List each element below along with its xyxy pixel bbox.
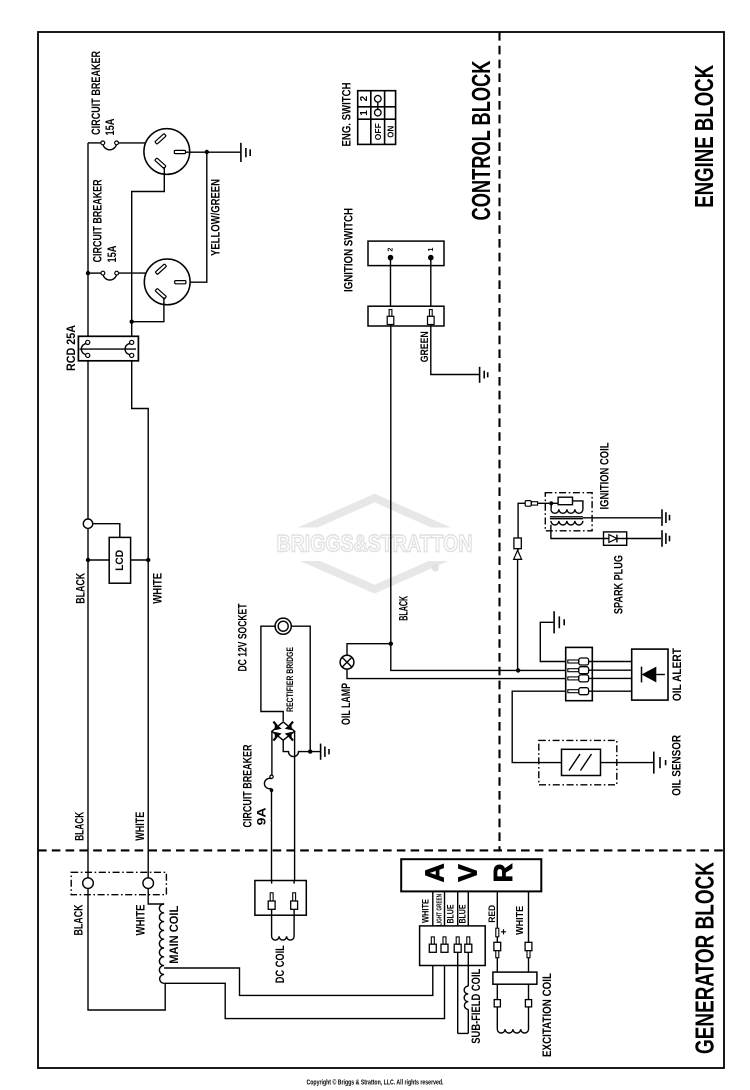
svg-text:GREEN: GREEN bbox=[419, 331, 431, 362]
circuit breaker CB1 15A bbox=[101, 141, 119, 150]
svg-text:2: 2 bbox=[388, 247, 395, 251]
svg-text:OIL SENSOR: OIL SENSOR bbox=[672, 734, 684, 796]
svg-text:Copyright © Briggs & Stratton,: Copyright © Briggs & Stratton, LLC. All … bbox=[307, 1078, 444, 1086]
svg-text:RECTIFIER BRIDGE: RECTIFIER BRIDGE bbox=[285, 647, 296, 712]
ignition coil lower winding bbox=[551, 521, 583, 525]
DC 12V socket J3 bbox=[275, 618, 291, 634]
DC coil pin A bbox=[268, 881, 275, 910]
svg-text:IGNITION SWITCH: IGNITION SWITCH bbox=[342, 208, 356, 292]
dashed divider generator block bbox=[38, 849, 724, 851]
wire socket J2 bottom to white rail bbox=[132, 297, 164, 321]
svg-text:ENG. SWITCH: ENG. SWITCH bbox=[340, 83, 354, 147]
wire main coil bottom to AVR light green bbox=[164, 952, 444, 1018]
ignition coil upper winding bbox=[551, 509, 583, 513]
wire terminal to primary and winding bbox=[551, 503, 558, 509]
spark plug box with diode bbox=[604, 532, 627, 545]
socket J1 (AC outlet) bbox=[144, 129, 190, 175]
wire breaker 9A to DC coil bbox=[271, 792, 273, 881]
junction dot black-LCD bbox=[86, 558, 90, 562]
svg-text:WHITE: WHITE bbox=[421, 899, 432, 923]
wire left rail L down bbox=[87, 143, 89, 336]
excitation block box bbox=[493, 972, 537, 984]
terminal circle black bbox=[83, 878, 94, 889]
terminal circle LCD tap bbox=[83, 519, 92, 528]
terminal dot 2 bbox=[388, 255, 394, 261]
svg-text:CIRCUIT BREAKER: CIRCUIT BREAKER bbox=[93, 179, 105, 263]
RCD 25A breaker box bbox=[78, 336, 138, 361]
wires connector to oil alert bbox=[589, 662, 632, 692]
svg-text:SPARK PLUG: SPARK PLUG bbox=[614, 555, 626, 614]
wire red from AVR bbox=[496, 891, 498, 928]
wire white from AVR bbox=[528, 891, 530, 942]
wire bridge left to breaker 9A bbox=[271, 731, 273, 775]
excitation coil L4 bbox=[497, 1007, 528, 1033]
svg-text:9A: 9A bbox=[256, 807, 268, 825]
svg-text:1: 1 bbox=[359, 110, 370, 116]
svg-text:RED: RED bbox=[487, 905, 498, 923]
circuit breaker CB2 15A bbox=[101, 271, 119, 280]
wire black rail to generator connector bbox=[87, 528, 89, 878]
wire black rail to LCD left bbox=[88, 559, 109, 561]
wire bridge bottom to ground with hop bbox=[283, 740, 320, 756]
wire sub-field left bbox=[457, 952, 459, 1033]
connector pin P3 bbox=[568, 675, 589, 682]
engine connector box bbox=[566, 647, 593, 700]
junction dot yellow/green tap bbox=[205, 150, 209, 154]
wire socket J1 bottom to RCD bbox=[132, 167, 165, 336]
DC coil box bbox=[255, 881, 306, 916]
junction dot diode tap bbox=[516, 668, 520, 672]
switch contact symbols in table bbox=[375, 95, 382, 117]
svg-text:CIRCUIT BREAKER: CIRCUIT BREAKER bbox=[91, 50, 103, 135]
red inline connector with + bbox=[494, 928, 506, 958]
wire white to main coil top bbox=[148, 888, 164, 904]
wire yellow/green vertical to socket J2 bbox=[186, 152, 207, 282]
svg-text:ENGINE BLOCK: ENGINE BLOCK bbox=[689, 65, 719, 208]
wire DC socket left to rectifier bbox=[261, 626, 283, 721]
svg-text:BLUE: BLUE bbox=[446, 905, 457, 924]
connector pin P1 bbox=[568, 658, 589, 665]
DC coil pin B bbox=[291, 881, 298, 910]
wire sub-field bottom link bbox=[458, 1009, 469, 1033]
svg-text:15A: 15A bbox=[107, 246, 119, 263]
svg-text:BLACK: BLACK bbox=[398, 595, 410, 620]
sub-field coil L3 bbox=[464, 986, 468, 1009]
svg-text:MAIN COIL: MAIN COIL bbox=[167, 906, 181, 964]
dashed divider control/engine bbox=[498, 32, 500, 850]
ignition coil core lines bbox=[550, 517, 583, 519]
connector pin (black wire) bbox=[387, 310, 394, 325]
svg-text:WHITE: WHITE bbox=[135, 812, 147, 841]
wire CB1 to socket J1 bbox=[119, 142, 156, 144]
main coil L1 bbox=[159, 904, 164, 983]
svg-text:2: 2 bbox=[359, 95, 370, 101]
gen connector pin 1 bbox=[429, 937, 436, 952]
svg-text:ON: ON bbox=[385, 126, 395, 138]
wire oil lamp top to black rail bbox=[347, 644, 391, 656]
svg-text:WHITE: WHITE bbox=[515, 906, 526, 935]
svg-text:LCD: LCD bbox=[114, 550, 126, 571]
wire DC socket right to ground rail bbox=[291, 626, 310, 751]
AVR box bbox=[401, 859, 541, 891]
connector plug pair (ignition primary lead) bbox=[525, 501, 549, 507]
ground G6 (engine connector) bbox=[540, 611, 566, 661]
terminal circle white bbox=[143, 878, 154, 889]
svg-text:IGNITION COIL: IGNITION COIL bbox=[599, 443, 611, 510]
ground G3 (rectifier) bbox=[321, 744, 329, 760]
oil lamp LP1 bbox=[340, 655, 354, 669]
excitation terminal square A bbox=[494, 1000, 500, 1007]
wire oil sensor to ground G7 bbox=[601, 762, 654, 764]
svg-text:DC 12V SOCKET: DC 12V SOCKET bbox=[238, 604, 250, 672]
svg-text:CIRCUIT BREAKER: CIRCUIT BREAKER bbox=[243, 744, 255, 828]
wire spark plug to ground G5 bbox=[627, 538, 661, 540]
wire secondary to ground G4 bbox=[583, 517, 661, 519]
wire plug to diode D1 bbox=[518, 503, 525, 538]
diode D1 (kill lead) bbox=[514, 538, 522, 559]
LCD box bbox=[109, 537, 130, 583]
wire diode to black rail junction bbox=[517, 559, 519, 670]
ignition connector box bbox=[368, 306, 444, 326]
svg-text:SUB-FIELD COIL: SUB-FIELD COIL bbox=[471, 969, 483, 1044]
ignition coil terminal dot bbox=[549, 501, 553, 505]
wire terminal 2 to connector bbox=[390, 258, 392, 310]
ignition coil T1 dash-dot box bbox=[545, 493, 592, 531]
watermark briggs&stratton logo bbox=[258, 498, 491, 589]
wire primary right to winding bbox=[573, 501, 583, 509]
svg-text:15A: 15A bbox=[105, 119, 117, 136]
wire oil lamp bottom to engine connector bbox=[347, 669, 566, 679]
junction dot white-LCD bbox=[146, 558, 150, 562]
ground G7 (oil sensor) bbox=[654, 752, 666, 774]
svg-text:LIGHT GREEN: LIGHT GREEN bbox=[437, 894, 444, 926]
svg-text:OIL ALERT: OIL ALERT bbox=[672, 648, 684, 701]
gen connector pin 2 bbox=[441, 937, 448, 952]
wire winding to spark plug bbox=[551, 525, 604, 539]
gen connector pin 4 bbox=[465, 937, 472, 952]
eng switch table S1 bbox=[358, 91, 396, 145]
svg-text:BLACK: BLACK bbox=[76, 572, 88, 604]
ignition coil primary rect bbox=[558, 497, 572, 505]
DC coil winding L2 bbox=[272, 909, 295, 940]
junction dot oil lamp tap bbox=[389, 642, 393, 646]
svg-text:WHITE: WHITE bbox=[152, 573, 164, 604]
svg-text:BLACK: BLACK bbox=[75, 811, 87, 840]
svg-text:A: A bbox=[419, 863, 449, 882]
wire L1 to circuit breaker 1 bbox=[88, 142, 101, 144]
rectifier bridge BR1 bbox=[272, 722, 295, 741]
circuit breaker CB3 9A bbox=[264, 775, 273, 792]
wire socket J1 to ground bbox=[186, 151, 241, 153]
ground G5 (spark plug) bbox=[662, 530, 670, 547]
ground G4 (ignition coil) bbox=[662, 509, 670, 526]
wire black ignition rail bbox=[391, 325, 566, 671]
wire bridge right to DC coil bbox=[294, 731, 296, 880]
wire CB2 to socket J2 bbox=[119, 272, 157, 274]
svg-text:CONTROL BLOCK: CONTROL BLOCK bbox=[466, 60, 496, 220]
wires AVR to generator connector bbox=[433, 891, 469, 937]
connector pin P2 bbox=[568, 667, 589, 674]
generator terminal dash-dot box bbox=[71, 872, 166, 894]
wires below excitation block bbox=[497, 984, 528, 999]
svg-text:BLUE: BLUE bbox=[457, 905, 468, 924]
wires into excitation block bbox=[497, 958, 528, 972]
wire LCD right to white rail bbox=[131, 559, 149, 561]
ground G1 bbox=[241, 143, 250, 162]
excitation terminal square B bbox=[525, 1000, 531, 1007]
wire branch to circuit breaker 2 bbox=[88, 272, 101, 274]
svg-text:YELLOW/GREEN: YELLOW/GREEN bbox=[211, 179, 223, 256]
white inline connector bbox=[525, 942, 532, 957]
svg-text:GENERATOR BLOCK: GENERATOR BLOCK bbox=[690, 862, 720, 1054]
terminal dot 1 bbox=[428, 255, 434, 261]
wire green to ground bbox=[431, 325, 479, 375]
wire terminal 1 to connector bbox=[430, 258, 432, 310]
junction dot white rail bbox=[130, 320, 134, 324]
svg-text:WHITE: WHITE bbox=[136, 904, 148, 935]
junction dot at CB2 branch bbox=[86, 271, 90, 275]
generator connector box bbox=[420, 926, 486, 966]
oil sensor dash-dot box bbox=[539, 740, 617, 784]
svg-text:OFF: OFF bbox=[373, 123, 383, 140]
oil sensor SW (inner box with slashes) bbox=[562, 749, 601, 775]
oil alert box U1 bbox=[632, 649, 668, 700]
connector pin (green wire) bbox=[428, 310, 435, 325]
wire black return to main coil bbox=[88, 888, 165, 1010]
gen connector pin 3 bbox=[454, 937, 461, 952]
connector pin P4 bbox=[568, 688, 589, 695]
wire LCD tap to LCD top bbox=[93, 524, 120, 538]
ignition switch box S2 bbox=[368, 241, 444, 266]
svg-text:BLACK: BLACK bbox=[74, 904, 86, 936]
svg-text:V: V bbox=[453, 864, 483, 882]
wire black rail below RCD bbox=[87, 360, 89, 519]
svg-text:DC COIL: DC COIL bbox=[275, 945, 287, 983]
socket J2 (AC outlet) bbox=[144, 259, 190, 305]
svg-text:®: ® bbox=[432, 563, 439, 573]
svg-text:BRIGGS&STRATTON: BRIGGS&STRATTON bbox=[277, 531, 473, 558]
svg-text:RCD 25A: RCD 25A bbox=[66, 325, 78, 371]
ground G2 (green) bbox=[480, 367, 488, 383]
svg-text:1: 1 bbox=[428, 247, 435, 251]
svg-text:EXCITATION COIL: EXCITATION COIL bbox=[542, 973, 554, 1057]
wire connector to oil sensor bbox=[512, 691, 566, 762]
junction dot dc ground bbox=[308, 749, 312, 753]
wire sub-field right with coil bbox=[467, 952, 469, 986]
wire white rail below RCD with jog bbox=[132, 360, 149, 878]
wire main coil tap to AVR white bbox=[164, 952, 433, 995]
svg-text:R: R bbox=[488, 863, 518, 882]
svg-text:OIL LAMP: OIL LAMP bbox=[341, 683, 353, 725]
